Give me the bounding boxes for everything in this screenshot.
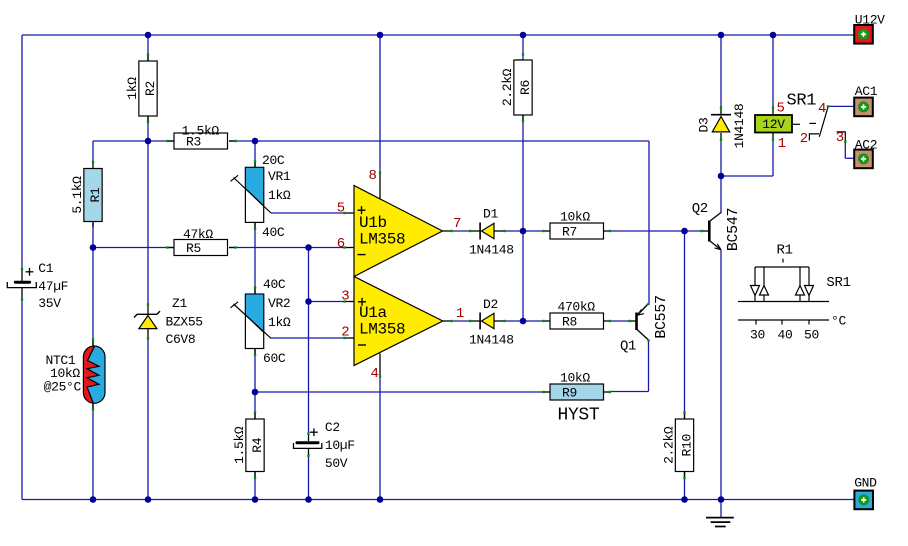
resistor R1 5.1k [84, 169, 102, 222]
wire R6 bottom to D1 node [522, 115, 524, 231]
svg-text:SR1: SR1 [787, 92, 817, 111]
wire Q1 collector down [648, 340, 650, 392]
svg-text:1: 1 [778, 136, 786, 152]
wire relay pin 3 to AC2 [845, 141, 854, 158]
svg-text:40: 40 [778, 328, 793, 343]
wire Q2 emitter to ground rail [720, 250, 722, 500]
svg-text:47µF: 47µF [38, 279, 68, 294]
diode D1 1N4148 [469, 207, 514, 258]
wire R3 to VR1 top node [229, 140, 255, 142]
resistor R5 47k [174, 240, 228, 256]
wire R1 bottom / NTC1 column [92, 221, 94, 499]
svg-text:AC1: AC1 [855, 84, 878, 99]
svg-text:U1a: U1a [359, 304, 388, 322]
wire pin6-pin3 link / C2 top column [308, 248, 310, 435]
trimmer VR2 1k [231, 294, 272, 349]
svg-text:U1b: U1b [359, 214, 387, 232]
resistor R2 1k [139, 61, 157, 116]
svg-text:5: 5 [777, 101, 785, 117]
svg-text:6: 6 [337, 236, 345, 252]
wire R10 bottom lead [684, 472, 686, 500]
svg-text:R3: R3 [186, 135, 201, 150]
svg-text:3: 3 [836, 130, 844, 146]
wire D1 node down to D2 node [522, 231, 524, 321]
wire U1b out 7 to D1 [451, 230, 470, 232]
svg-text:60C: 60C [263, 351, 286, 366]
wire ref rail to Q1 emitter [255, 141, 649, 304]
wire VR2 wiper to U1a pin 2 [271, 337, 345, 339]
pin connection ticks [21, 53, 847, 479]
svg-text:40C: 40C [262, 225, 285, 240]
svg-text:8: 8 [369, 168, 377, 184]
resistor R3 1.5k [174, 133, 228, 149]
wire GND bottom rail [22, 499, 854, 501]
wire +12V top rail [22, 34, 854, 36]
terminal AC1 [854, 98, 873, 117]
resistor R4 1.5k [246, 419, 264, 472]
wire Q1 collector to R9 [610, 391, 649, 393]
op-amp U1a LM358 [354, 277, 443, 366]
wire node to R7 [523, 230, 544, 232]
wire VR1 top lead [254, 141, 256, 168]
zener Z1 BZX55 C6V8 [134, 296, 203, 347]
wire left rail lower (C1 to GND rail) [21, 299, 23, 500]
svg-text:Z1: Z1 [172, 296, 187, 311]
svg-text:Q1: Q1 [620, 339, 636, 355]
wire left rail upper (to C1) [21, 35, 23, 270]
svg-text:R1: R1 [88, 187, 103, 202]
diode D2 1N4148 [469, 297, 514, 348]
svg-text:4: 4 [818, 101, 826, 117]
wire ref node to R3 [148, 140, 174, 142]
svg-text:D3: D3 [696, 118, 711, 133]
op-amp U1b LM358 [354, 186, 443, 277]
svg-text:HYST: HYST [558, 406, 600, 426]
svg-text:R10: R10 [679, 434, 694, 456]
svg-text:R4: R4 [250, 437, 265, 452]
svg-text:10kΩ: 10kΩ [560, 371, 590, 386]
wire D1 to node [504, 230, 523, 232]
svg-text:LM358: LM358 [359, 231, 405, 249]
wire C2 bottom lead [308, 455, 310, 500]
svg-text:1N4148: 1N4148 [469, 243, 514, 258]
wire R8 to Q1 base [610, 320, 631, 322]
svg-text:U12V: U12V [855, 13, 885, 28]
wire R2 top lead [147, 35, 149, 61]
svg-text:20C: 20C [262, 153, 285, 168]
wire relay node horizontal [721, 175, 773, 177]
wire D2 to node [504, 320, 523, 322]
svg-text:D2: D2 [483, 297, 498, 312]
wire D3 top lead [720, 35, 722, 108]
transistor Q2 BC547 NPN [692, 201, 742, 251]
ground symbol [706, 518, 734, 527]
wire Z1 bottom column [147, 338, 149, 500]
svg-text:1kΩ: 1kΩ [268, 188, 291, 203]
hysteresis diagram R1/SR1 temperature scale [738, 259, 829, 325]
wire R6 top lead [522, 35, 524, 60]
resistor R6 2.2k [514, 60, 532, 115]
wire U1 pin 4 to ground rail [379, 376, 381, 500]
terminal GND [854, 491, 873, 510]
wire R5 row left [93, 247, 174, 249]
wire R9 row to VR2 bottom node [255, 391, 544, 393]
relay pin numbers [777, 101, 844, 153]
wire R1 top to ref node [93, 141, 148, 163]
svg-text:1.5kΩ: 1.5kΩ [232, 426, 247, 464]
svg-text:R8: R8 [562, 315, 577, 330]
svg-text:2.2kΩ: 2.2kΩ [500, 68, 515, 106]
svg-text:1kΩ: 1kΩ [125, 77, 140, 100]
svg-text:BC547: BC547 [725, 208, 742, 251]
svg-text:Q2: Q2 [692, 201, 708, 217]
svg-text:1: 1 [456, 306, 464, 322]
svg-text:12V: 12V [762, 117, 785, 132]
svg-text:D1: D1 [483, 207, 498, 222]
svg-text:C1: C1 [38, 261, 53, 276]
svg-text:AC2: AC2 [855, 137, 877, 152]
pin stubs black lead segments [22, 55, 773, 478]
svg-text:5.1kΩ: 5.1kΩ [70, 176, 85, 214]
svg-text:10kΩ: 10kΩ [560, 210, 590, 225]
svg-text:4: 4 [371, 366, 379, 382]
resistor R7 10k [550, 223, 604, 239]
svg-text:R7: R7 [562, 225, 577, 240]
labels VR2 [263, 277, 291, 366]
wire VR1 wiper to U1b pin 5 [271, 212, 345, 214]
wire U1a out 1 to D2 [451, 320, 470, 322]
relay SR1 contact [792, 106, 845, 141]
wire R4 bottom lead [254, 472, 256, 500]
svg-text:VR1: VR1 [268, 169, 291, 184]
wire node to U1a pin 3 [309, 301, 346, 303]
resistor R9 10k HYST [550, 384, 604, 400]
svg-text:2: 2 [800, 131, 808, 147]
svg-text:1kΩ: 1kΩ [268, 315, 291, 330]
wire Q2 base node to R10 [684, 231, 686, 419]
wire node to R8 [523, 320, 544, 322]
wire VR2 bottom to R4 [254, 349, 256, 420]
svg-text:2.2kΩ: 2.2kΩ [661, 426, 676, 464]
svg-text:BZX55: BZX55 [166, 315, 203, 330]
op-amp pin numbers [337, 168, 464, 382]
svg-text:R5: R5 [186, 241, 201, 256]
labels NTC1 [44, 353, 82, 395]
svg-text:470kΩ: 470kΩ [558, 300, 596, 315]
capacitor C1 47uF 35V electrolytic [7, 261, 68, 311]
wire relay pin 4 to AC1 [828, 105, 854, 107]
svg-text:50V: 50V [325, 456, 348, 471]
capacitor C2 10uF 50V electrolytic [294, 420, 355, 471]
wire relay coil top to rail [772, 35, 774, 108]
svg-text:°C: °C [831, 313, 846, 328]
wire U1 pin 8 supply [379, 35, 381, 173]
svg-text:47kΩ: 47kΩ [183, 227, 213, 242]
wire R2 bottom to Z1 [147, 116, 149, 305]
svg-text:@25°C: @25°C [44, 380, 82, 395]
svg-text:R2: R2 [143, 81, 158, 96]
svg-text:BC557: BC557 [653, 295, 670, 338]
svg-text:50: 50 [804, 328, 819, 343]
terminal U12V [854, 25, 873, 44]
svg-text:1N4148: 1N4148 [469, 333, 514, 348]
thermistor NTC1 10k [83, 346, 105, 403]
svg-text:C6V8: C6V8 [166, 332, 196, 347]
svg-text:1N4148: 1N4148 [732, 104, 747, 149]
svg-text:GND: GND [854, 476, 877, 491]
relay SR1 coil 12V [755, 115, 792, 133]
resistor R8 470k [550, 313, 604, 329]
terminal AC2 [854, 150, 873, 169]
svg-text:10µF: 10µF [325, 438, 355, 453]
wire R5 to U1b pin 6 [229, 247, 345, 249]
labels hysteresis diagram [750, 243, 851, 343]
wire relay coil bottom lead [772, 139, 774, 176]
wire R7 to Q2 base [610, 230, 703, 232]
resistor R10 2.2k [675, 419, 693, 472]
svg-text:35V: 35V [38, 296, 61, 311]
transistor Q1 BC557 PNP [620, 295, 670, 354]
wire VR1 bottom to VR2 top [254, 223, 256, 295]
trimmer VR1 1k [231, 167, 272, 222]
svg-text:30: 30 [750, 328, 765, 343]
svg-text:R9: R9 [562, 386, 577, 401]
wire ground symbol stem [720, 500, 722, 518]
svg-text:R1: R1 [777, 243, 793, 259]
svg-text:7: 7 [453, 216, 461, 232]
svg-text:R6: R6 [518, 80, 533, 95]
wire D3 anode down [720, 139, 722, 176]
diode D3 1N4148 flyback [696, 104, 747, 149]
svg-text:C2: C2 [325, 420, 340, 435]
svg-text:40C: 40C [263, 277, 286, 292]
svg-text:VR2: VR2 [268, 296, 290, 311]
svg-text:LM358: LM358 [359, 321, 405, 339]
labels VR1 [262, 153, 291, 240]
svg-text:SR1: SR1 [826, 275, 850, 291]
wire Q2 collector up [720, 176, 722, 213]
